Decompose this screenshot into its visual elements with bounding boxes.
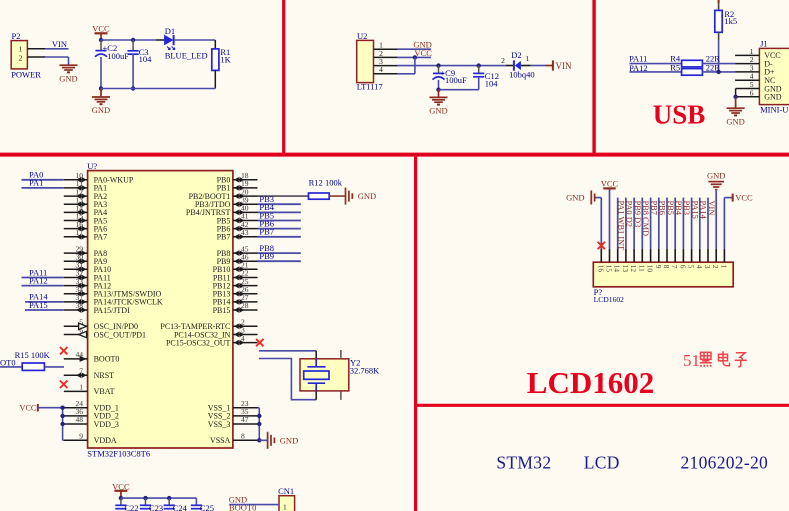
- svg-text:D1: D1: [165, 26, 175, 36]
- svg-text:MINI-USB: MINI-USB: [760, 104, 789, 114]
- svg-text:J1: J1: [760, 38, 768, 48]
- svg-text:R12: R12: [309, 178, 323, 188]
- svg-text:44: 44: [76, 350, 84, 359]
- svg-text:PA12: PA12: [29, 275, 48, 285]
- svg-text:11: 11: [637, 265, 646, 272]
- svg-text:GND: GND: [707, 171, 725, 181]
- svg-text:C22: C22: [124, 503, 138, 511]
- svg-text:STM32F103C8T6: STM32F103C8T6: [87, 449, 150, 459]
- svg-text:5: 5: [687, 265, 696, 269]
- svg-text:1: 1: [19, 45, 23, 54]
- svg-text:STM32: STM32: [496, 453, 551, 473]
- svg-text:GND: GND: [566, 193, 584, 203]
- svg-text:4: 4: [241, 334, 245, 343]
- svg-text:4: 4: [379, 65, 383, 74]
- svg-text:1: 1: [719, 265, 728, 269]
- svg-text:VIN: VIN: [52, 39, 67, 49]
- svg-text:PA14: PA14: [699, 201, 708, 220]
- svg-text:9: 9: [79, 432, 83, 441]
- svg-text:2: 2: [501, 56, 505, 65]
- svg-text:13: 13: [621, 265, 630, 273]
- svg-text:104: 104: [485, 79, 499, 89]
- svg-text:47: 47: [241, 415, 249, 424]
- svg-text:9: 9: [654, 265, 663, 269]
- svg-text:VSSA: VSSA: [210, 436, 231, 445]
- svg-text:GND: GND: [764, 93, 782, 102]
- svg-text:100uF: 100uF: [445, 75, 467, 85]
- svg-text:PB9 D3: PB9 D3: [633, 201, 642, 228]
- svg-text:1: 1: [79, 383, 83, 392]
- svg-text:PA0 D2: PA0 D2: [625, 201, 634, 227]
- svg-text:VCC: VCC: [92, 24, 110, 34]
- svg-text:POWER: POWER: [11, 70, 41, 80]
- svg-text:C24: C24: [173, 503, 188, 511]
- svg-text:14: 14: [613, 265, 622, 273]
- svg-text:12: 12: [629, 265, 638, 273]
- svg-text:15: 15: [605, 265, 614, 273]
- svg-text:6: 6: [750, 88, 754, 97]
- svg-text:VSS_3: VSS_3: [208, 420, 231, 429]
- svg-text:PA7: PA7: [94, 233, 108, 242]
- svg-text:16: 16: [596, 265, 605, 273]
- svg-text:VCC: VCC: [735, 193, 753, 203]
- svg-text:1K: 1K: [220, 55, 231, 65]
- svg-text:PB3: PB3: [682, 201, 691, 215]
- svg-text:LCD1602: LCD1602: [594, 295, 625, 304]
- svg-text:2: 2: [711, 265, 720, 269]
- svg-text:VIN: VIN: [707, 201, 716, 216]
- svg-text:PB15: PB15: [213, 306, 231, 315]
- svg-text:PB7: PB7: [259, 227, 274, 237]
- svg-text:GND: GND: [358, 191, 376, 201]
- svg-text:PB5: PB5: [666, 201, 675, 215]
- svg-text:7: 7: [670, 265, 679, 269]
- svg-text:PA15/JTDI: PA15/JTDI: [94, 306, 130, 315]
- svg-text:PB7: PB7: [649, 201, 658, 215]
- svg-text:GND: GND: [59, 73, 77, 83]
- svg-text:6: 6: [678, 265, 687, 269]
- svg-text:PC15-OSC32_OUT: PC15-OSC32_OUT: [166, 338, 231, 347]
- svg-text:GND: GND: [726, 116, 744, 126]
- svg-text:D2: D2: [511, 50, 521, 60]
- svg-text:U2: U2: [357, 31, 367, 41]
- svg-text:R15 100K: R15 100K: [15, 350, 51, 360]
- svg-text:1k5: 1k5: [724, 16, 737, 26]
- svg-text:BOOT0: BOOT0: [94, 355, 120, 364]
- svg-text:2106202-20: 2106202-20: [681, 453, 769, 473]
- svg-text:3: 3: [703, 265, 712, 269]
- svg-text:51: 51: [683, 351, 700, 370]
- svg-text:GND: GND: [92, 105, 110, 115]
- svg-text:PB8 CMD: PB8 CMD: [641, 201, 650, 237]
- svg-text:6: 6: [79, 326, 83, 335]
- svg-text:8: 8: [241, 432, 245, 441]
- svg-text:PA1 WB1 INT: PA1 WB1 INT: [617, 201, 626, 251]
- svg-text:PA15: PA15: [29, 300, 48, 310]
- svg-text:VDD_3: VDD_3: [94, 420, 119, 429]
- svg-text:GND: GND: [280, 435, 298, 445]
- svg-text:BLUE_LED: BLUE_LED: [165, 51, 208, 61]
- svg-text:104: 104: [139, 54, 153, 64]
- svg-text:VIN: VIN: [556, 61, 572, 71]
- svg-text:LT1117: LT1117: [357, 82, 383, 92]
- svg-text:4: 4: [695, 265, 704, 269]
- svg-text:VDDA: VDDA: [94, 436, 117, 445]
- svg-text:VCC: VCC: [20, 404, 37, 413]
- svg-text:2: 2: [19, 54, 23, 63]
- svg-text:C23: C23: [149, 503, 163, 511]
- svg-text:10: 10: [646, 265, 655, 273]
- svg-text:USB: USB: [653, 100, 706, 130]
- svg-text:LCD1602: LCD1602: [527, 365, 654, 400]
- svg-text:VCC: VCC: [414, 48, 432, 58]
- svg-text:NRST: NRST: [94, 371, 115, 380]
- svg-text:U?: U?: [87, 161, 97, 171]
- svg-text:PA1: PA1: [29, 178, 43, 188]
- svg-text:28: 28: [241, 301, 249, 310]
- svg-text:CN1: CN1: [278, 486, 294, 496]
- svg-text:LCD: LCD: [584, 453, 620, 473]
- svg-text:100uF: 100uF: [107, 51, 129, 61]
- svg-text:VCC: VCC: [601, 179, 619, 189]
- svg-text:GND: GND: [429, 106, 447, 116]
- svg-text:1: 1: [526, 54, 530, 63]
- svg-text:32.768K: 32.768K: [350, 366, 380, 376]
- svg-text:PB4: PB4: [674, 201, 683, 216]
- svg-text:R5: R5: [670, 63, 680, 73]
- svg-text:7: 7: [79, 366, 83, 375]
- svg-text:PB6: PB6: [658, 201, 667, 215]
- svg-text:C25: C25: [200, 503, 214, 511]
- svg-text:8: 8: [662, 265, 671, 269]
- svg-text:VBAT: VBAT: [94, 387, 115, 396]
- svg-text:OT0: OT0: [0, 358, 16, 368]
- svg-text:100k: 100k: [325, 178, 343, 188]
- svg-text:PB7: PB7: [217, 233, 231, 242]
- svg-text:1: 1: [283, 502, 287, 511]
- svg-text:48: 48: [76, 415, 84, 424]
- svg-text:PA15: PA15: [690, 201, 699, 219]
- svg-text:38: 38: [76, 301, 84, 310]
- svg-text:10bq40: 10bq40: [509, 70, 534, 80]
- svg-text:OSC_OUT/PD1: OSC_OUT/PD1: [94, 330, 146, 339]
- svg-text:43: 43: [241, 228, 249, 237]
- svg-text:17: 17: [76, 228, 84, 237]
- svg-text:P2: P2: [12, 31, 21, 41]
- svg-text:PB9: PB9: [259, 251, 274, 261]
